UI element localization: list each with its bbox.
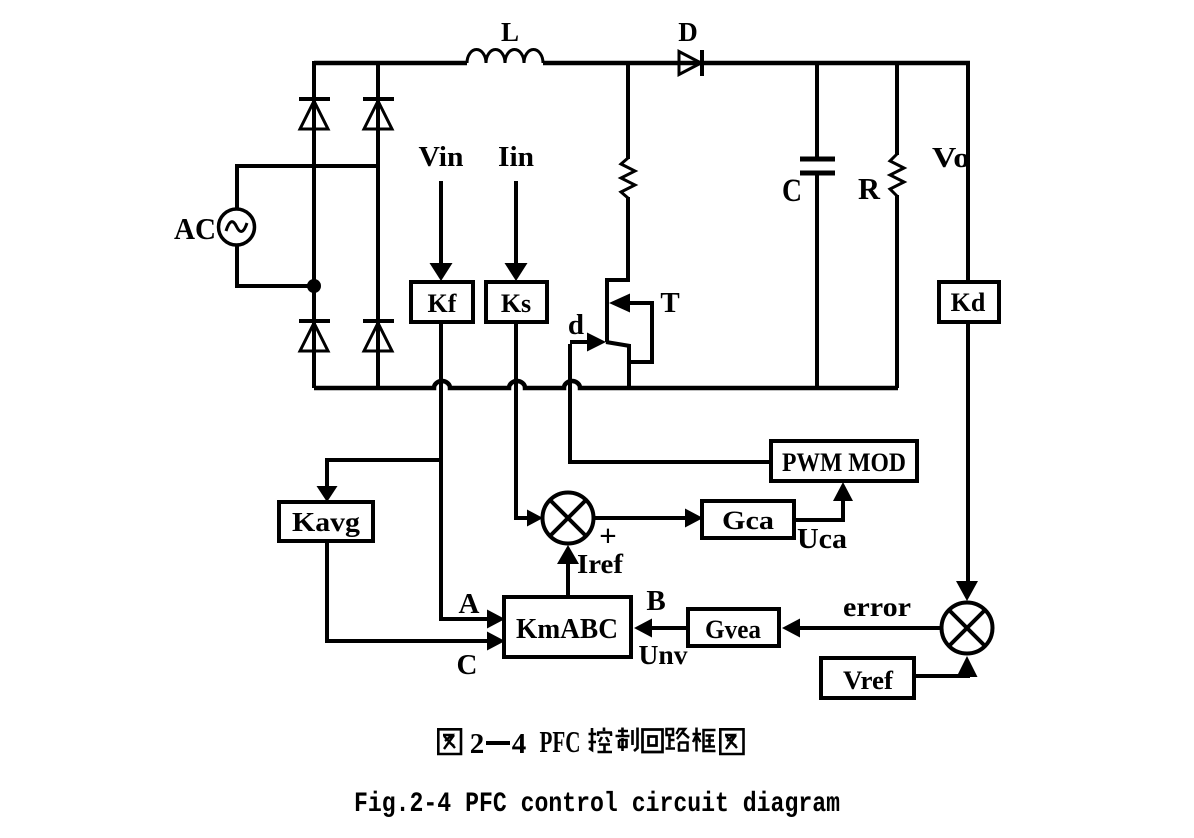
svg-text:2: 2 — [470, 728, 485, 760]
svg-text:Gca: Gca — [722, 506, 774, 535]
svg-text:KmABC: KmABC — [516, 613, 618, 645]
wire Kf to node A arrow — [439, 610, 505, 629]
svg-text:Iin: Iin — [498, 142, 534, 173]
wire Ks output down — [514, 322, 518, 518]
svg-text:d: d — [568, 309, 584, 341]
diode bridge lower-left — [299, 321, 330, 351]
svg-text:C: C — [782, 173, 802, 209]
caption glyph tu2 (图) — [720, 729, 743, 754]
wire bridge right leg — [376, 61, 380, 388]
wire Gvea to KmABC arrow — [634, 619, 688, 638]
block Kd — [939, 282, 999, 322]
block Kavg — [279, 502, 373, 541]
svg-text:R: R — [858, 171, 881, 206]
resistor R upper lead — [895, 63, 899, 155]
block PWM MOD — [771, 441, 917, 481]
wire bottom bus with hops — [314, 381, 898, 388]
caption glyph kuang (框) — [693, 728, 716, 752]
wire PWM MOD to gate d — [570, 344, 771, 462]
svg-text:Kavg: Kavg — [292, 507, 361, 537]
svg-text:Iref: Iref — [577, 549, 624, 579]
wire switch-node drop — [626, 63, 630, 159]
svg-text:Vin: Vin — [419, 142, 464, 173]
caption glyph hui (回) — [643, 730, 663, 753]
transistor T collector arrow — [609, 294, 652, 313]
svg-text:L: L — [501, 17, 519, 47]
caption glyph lu (路) — [666, 728, 690, 751]
wire Vin input arrow — [430, 181, 453, 281]
svg-text:Unv: Unv — [639, 640, 689, 670]
block Vref — [821, 658, 914, 698]
wire Kd output down arrow — [956, 322, 978, 601]
svg-text:B: B — [646, 585, 665, 617]
wire transistor source to bus — [627, 344, 631, 388]
svg-text:Gvea: Gvea — [705, 615, 761, 644]
wire arrow into KmABC C input — [487, 632, 505, 651]
svg-text:D: D — [678, 17, 698, 47]
transistor T feedback loop — [630, 301, 652, 362]
svg-text:+: + — [599, 518, 617, 553]
capacitor C lower lead — [815, 173, 819, 388]
diode D — [679, 50, 702, 76]
transistor gate arrow d — [570, 333, 606, 352]
svg-text:error: error — [843, 592, 911, 622]
wire AC source lower lead — [235, 244, 239, 288]
resistor R — [890, 154, 904, 196]
caption glyph kong (控) — [589, 728, 613, 753]
wire multiplier M1 to Gca arrow — [594, 509, 703, 528]
wire Kavg output to node C — [327, 541, 490, 641]
wire bridge left leg — [312, 61, 316, 388]
wire arrow into Kavg — [317, 486, 338, 502]
svg-text:4: 4 — [512, 728, 527, 760]
svg-text:Vref: Vref — [843, 666, 893, 695]
diode bridge upper-right — [363, 99, 394, 129]
wire AC bottom — [235, 284, 314, 288]
wire AC source upper lead — [235, 164, 239, 210]
wire top rail left segment — [314, 61, 467, 66]
junction AC-bridge — [307, 279, 321, 293]
svg-text:PFC: PFC — [540, 724, 581, 759]
caption glyph tu1 (图) — [438, 729, 461, 754]
capacitor C — [800, 159, 835, 173]
svg-text:T: T — [660, 287, 679, 319]
wire Gca to PWM MOD arrow — [794, 482, 853, 520]
transistor T body — [605, 278, 609, 342]
AC source — [219, 209, 255, 245]
wire Iin input arrow — [505, 181, 528, 281]
svg-text:C: C — [457, 649, 478, 681]
svg-text:A: A — [459, 588, 480, 620]
diode bridge lower-right — [363, 321, 394, 351]
wire AC top — [237, 164, 378, 168]
svg-text:Kd: Kd — [951, 288, 986, 317]
wire error to Gvea arrow — [782, 619, 942, 638]
wire resistor to transistor — [607, 197, 628, 280]
inductor L — [467, 49, 543, 63]
wire Iref arrow into M1 — [557, 545, 579, 597]
wire Kf output down — [439, 322, 443, 619]
block Kf — [411, 282, 473, 322]
wire output right rail — [966, 63, 970, 282]
wire Ks to multiplier arrow — [514, 510, 543, 527]
block Gvea — [688, 609, 779, 646]
svg-text:AC: AC — [174, 211, 216, 246]
caption glyph zhi (制) — [616, 728, 638, 752]
capacitor C upper lead — [815, 63, 819, 159]
block Ks — [486, 282, 547, 322]
block KmABC — [504, 597, 631, 657]
multiplier M1 — [543, 493, 594, 544]
svg-text:Uca: Uca — [797, 524, 847, 555]
resistor (sense) — [621, 158, 635, 198]
transistor T emitter link — [606, 342, 630, 346]
svg-text:Ks: Ks — [501, 289, 531, 318]
wire top rail right segment — [543, 61, 970, 66]
resistor R lower lead — [895, 195, 899, 388]
svg-text:Fig.2-4 PFC control circuit di: Fig.2-4 PFC control circuit diagram — [354, 789, 840, 820]
multiplier M2 — [942, 603, 993, 654]
svg-text:Vo: Vo — [932, 142, 970, 174]
wire Kavg branch — [327, 460, 443, 488]
svg-text:PWM MOD: PWM MOD — [782, 448, 906, 477]
caption text 2-4 — [470, 728, 527, 760]
svg-text:Kf: Kf — [428, 289, 457, 318]
block Gca — [702, 501, 794, 538]
diode bridge upper-left — [299, 99, 330, 129]
wire Vref to M2 arrow — [914, 656, 978, 677]
